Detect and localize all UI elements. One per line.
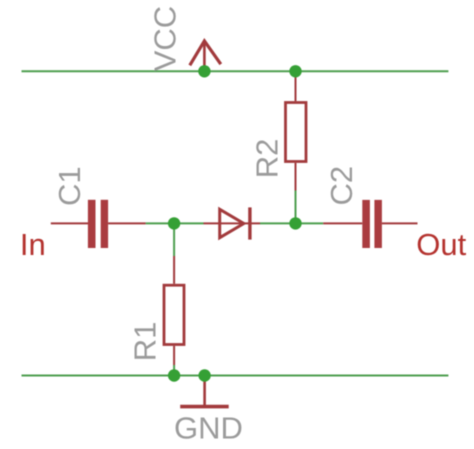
junction VCC arrow on rail — [198, 65, 210, 77]
label R2 — [250, 139, 285, 179]
wire VCC rail — [22, 70, 449, 72]
wire In pin — [51, 222, 89, 224]
junction GND symbol on rail — [198, 369, 210, 381]
resistor R2 — [286, 71, 307, 190]
label In — [20, 227, 46, 262]
label R1 — [128, 322, 163, 362]
svg-text:R1: R1 — [128, 322, 163, 362]
label C2 — [324, 166, 359, 206]
label GND — [174, 411, 243, 446]
wire net R1 to GND rail — [173, 365, 175, 376]
ground symbol — [180, 376, 229, 407]
label VCC — [148, 6, 183, 71]
label Out — [416, 227, 466, 262]
junction R2 top on rail — [289, 65, 301, 77]
junction R1 bottom on rail — [168, 369, 180, 381]
svg-text:GND: GND — [174, 411, 243, 445]
capacitor C2 — [323, 200, 417, 248]
node A (C1/diode/R1) — [168, 217, 180, 229]
wire net diode to C2 — [260, 222, 323, 224]
label C1 — [52, 166, 87, 206]
svg-text:VCC: VCC — [148, 6, 183, 71]
svg-text:C1: C1 — [52, 166, 87, 206]
svg-text:Out: Out — [416, 227, 466, 262]
node B (diode/C2/R2) — [289, 217, 301, 229]
svg-text:C2: C2 — [324, 166, 359, 206]
wire net node A to R1 — [173, 223, 175, 256]
svg-text:R2: R2 — [250, 139, 285, 179]
wire GND rail — [22, 375, 449, 377]
diode D1 — [204, 207, 261, 239]
power symbol VCC — [190, 41, 221, 71]
resistor R1 — [164, 256, 184, 365]
wire net C1 to diode — [146, 222, 204, 224]
svg-text:In: In — [20, 227, 46, 262]
capacitor C1 — [88, 200, 146, 248]
wire net R2 to node B — [295, 191, 297, 224]
